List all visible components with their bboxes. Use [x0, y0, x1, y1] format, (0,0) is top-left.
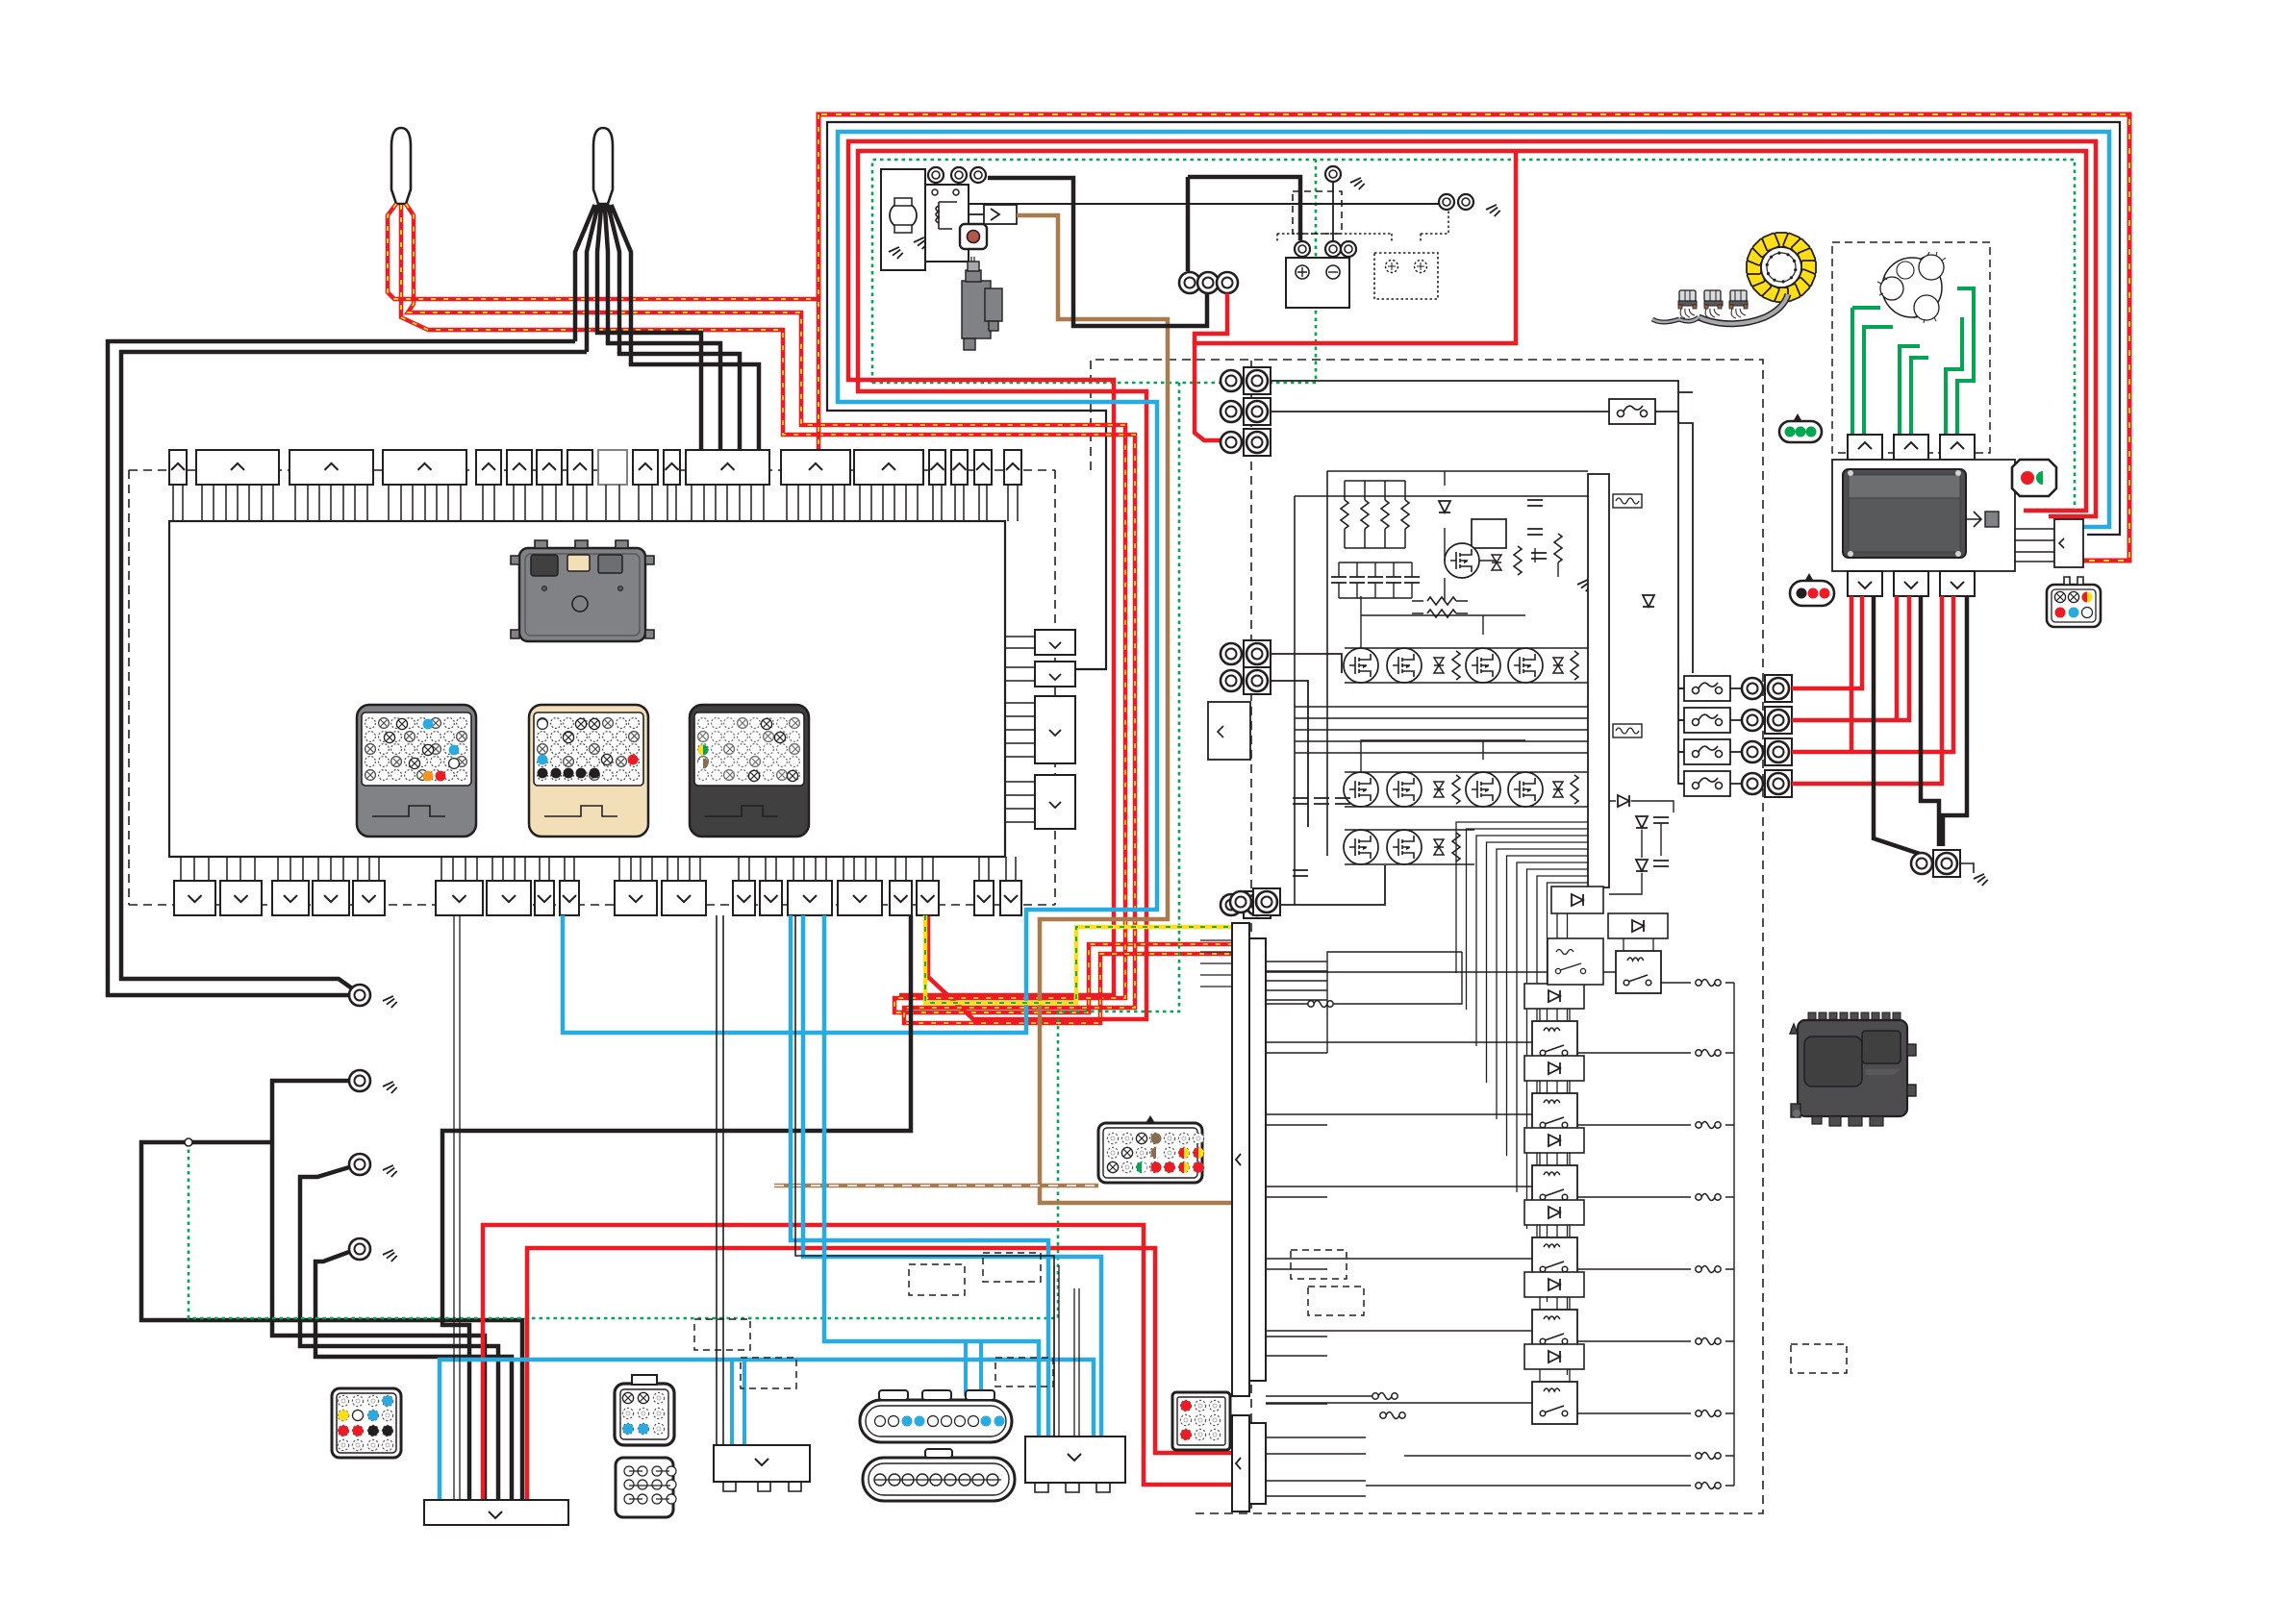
- ring pair fuse 2: [1742, 675, 1792, 702]
- wire black G3 route: [300, 1167, 498, 1500]
- capacitor C1: [1527, 500, 1543, 506]
- wire brown main relay: [1017, 215, 1232, 1203]
- wire rectifier red 2: [1792, 596, 1909, 720]
- wire rectifier red stub A: [1895, 596, 1900, 720]
- ECM bottom connector 9: [560, 881, 579, 915]
- fuse bank F4: [1684, 739, 1730, 764]
- ECM bottom connector 2: [220, 881, 262, 915]
- ECM right connector 4: [1035, 775, 1075, 829]
- diode D4: [1636, 816, 1648, 828]
- zener row2 A: [1434, 782, 1444, 797]
- ground G1: [383, 996, 398, 1011]
- connector 8-pin C: [616, 1458, 676, 1517]
- net harness green dotted run: [872, 160, 2075, 510]
- resistor R1: [1514, 546, 1522, 575]
- ECM top connector 11: [686, 450, 769, 485]
- engine control module image: [1790, 1012, 1916, 1126]
- mosfet row1 Q2: [1387, 648, 1422, 683]
- harness clamp dashed box 4: [983, 1253, 1041, 1282]
- ECM dashed enclosure border: [129, 470, 1055, 905]
- wire black bundle lower: [141, 1142, 522, 1500]
- rectifier lower connector 1: [1848, 571, 1882, 596]
- wire fuse F1 link: [1586, 392, 1693, 673]
- ECM right connector 3: [1035, 696, 1075, 763]
- relay K7 diode: [1524, 1344, 1584, 1369]
- wire fuse feeds vertical: [1678, 392, 1684, 784]
- starter relay coil: [936, 202, 957, 229]
- fuse F1: [1609, 399, 1655, 424]
- zener row1 A: [1434, 658, 1444, 673]
- capacitor C3: [1531, 553, 1547, 559]
- ECM top connector 3: [290, 450, 373, 485]
- connector bar C: [1025, 1437, 1125, 1492]
- ring terminal G3: [349, 1154, 370, 1175]
- main fuse: [984, 205, 1017, 224]
- resistor pair horizontal: [1412, 597, 1468, 617]
- wire black relay to ground: [969, 203, 1439, 205]
- ring terminal E1: [1439, 194, 1454, 210]
- wire black battery top: [988, 178, 1207, 326]
- harness clamp dashed box 2: [694, 1319, 750, 1350]
- wire rectifier red 1: [1792, 596, 1862, 688]
- ECM bottom connector 3: [272, 881, 309, 915]
- driver aux switch box: [1548, 938, 1603, 985]
- fuse bank F3: [1684, 708, 1730, 733]
- ground battery: [1350, 178, 1366, 192]
- connector oval 10-pin: [863, 1449, 1015, 1501]
- harness clamp dashed box 7: [1308, 1287, 1364, 1315]
- ECM bottom connector 11: [662, 881, 706, 915]
- ECM right connector 2: [1035, 662, 1075, 687]
- ground starter B: [914, 237, 929, 252]
- mosfet Q1: [1445, 543, 1479, 578]
- ECM bottom connector 10: [615, 881, 657, 915]
- ring terminal E2: [1458, 194, 1473, 210]
- ground G2: [383, 1082, 398, 1096]
- mosfet row1 Q4: [1508, 648, 1543, 683]
- wire blue bar B drops: [732, 1360, 744, 1445]
- inductor L2: [1613, 724, 1642, 737]
- mosfet row1 Q1: [1344, 648, 1378, 683]
- inductor L1: [1613, 494, 1642, 508]
- wire trim link lines: [2015, 529, 2054, 562]
- ground G3: [383, 1165, 398, 1180]
- ECM bottom connector 15: [838, 881, 882, 915]
- relay K3: [1532, 1093, 1577, 1136]
- wire green pickup leads: [1852, 288, 1974, 435]
- ECM top connector 17: [1004, 450, 1021, 485]
- wire bus row 4: [1271, 654, 1342, 673]
- ECM top pins: [173, 485, 1018, 521]
- wire blue lower B: [824, 915, 1039, 1437]
- wire relay K7 diode links: [1540, 1369, 1570, 1382]
- wire yellow/green sensor: [925, 915, 1231, 1003]
- driver horizontal bus lines: [1295, 707, 1588, 753]
- ECM top connector 2: [196, 450, 279, 485]
- regulator IC block: [1472, 519, 1506, 548]
- wire relay K2 diode links: [1540, 1009, 1570, 1021]
- zener row1 B: [1553, 658, 1563, 673]
- wire ignition red/yellow 2: [406, 204, 1231, 1012]
- ECM bottom connector 12: [733, 881, 755, 915]
- ring terminal battery ground: [1325, 166, 1341, 182]
- wire blue main run: [563, 132, 2109, 1033]
- ring pair fuse 4: [1742, 738, 1792, 765]
- secondary harness strip: [1232, 1415, 1266, 1512]
- ground relay: [962, 233, 977, 247]
- capacitor C2: [1527, 529, 1543, 535]
- wire spark plug 2 lead steps: [597, 331, 759, 450]
- relay K4: [1532, 1165, 1577, 1208]
- zener row3: [1434, 839, 1444, 855]
- ground starter A: [889, 247, 904, 262]
- wire brown dash-dot segment: [774, 1184, 1098, 1188]
- wire rectifier red 3: [1792, 596, 1851, 752]
- ring pair terminal 5: [1221, 667, 1271, 694]
- connector bar B: [714, 1445, 810, 1491]
- wire green dotted lower run: [189, 383, 1179, 1318]
- wire driver frame: [1295, 471, 1588, 905]
- capacitor C5: [1653, 861, 1669, 866]
- ECM bottom connector 7: [487, 881, 531, 915]
- ring pair terminal 4: [1221, 640, 1271, 667]
- wire dotted isolator links: [1277, 210, 1448, 242]
- capacitor C4: [1653, 817, 1669, 823]
- subcircuit green dotted border: [872, 160, 1316, 383]
- ring terminal G1: [349, 985, 370, 1006]
- ECM bottom connector 16: [890, 881, 912, 915]
- wire red top run A: [848, 141, 2096, 995]
- wire fuse link: [969, 213, 984, 215]
- resistor row1 B: [1571, 651, 1578, 680]
- wire ignition red/yellow 1: [388, 204, 818, 299]
- ECM bottom connector 17: [917, 881, 939, 915]
- connector bar A: [424, 1500, 568, 1525]
- ECM bottom connector 5: [353, 881, 385, 915]
- relay K1: [1616, 951, 1661, 993]
- relay K2: [1532, 1021, 1577, 1063]
- inline coil A: [1308, 1001, 1333, 1008]
- ECM top connector 7: [537, 450, 562, 485]
- wire blue sensor 2: [791, 915, 1048, 1437]
- wire relay K4 diode links: [1540, 1153, 1570, 1165]
- stator connector 3: [1940, 435, 1975, 460]
- relay K3 diode: [1524, 1056, 1584, 1081]
- starter motor block: [881, 169, 925, 270]
- wire rectifier black 1: [1874, 596, 1920, 854]
- connector 3-pin power: [1790, 573, 1834, 606]
- ground E: [1486, 205, 1501, 219]
- relay K5: [1532, 1237, 1577, 1280]
- wire black G4 route: [315, 1252, 512, 1500]
- wire black battery minus: [1332, 183, 1334, 242]
- wire battery red branch: [1195, 293, 1227, 343]
- driver bus bar: [1588, 474, 1609, 887]
- wire blue lower A: [803, 915, 1101, 1437]
- relay K4 diode: [1524, 1128, 1584, 1153]
- ring pair terminal 2: [1221, 398, 1271, 425]
- ring terminal B1: [1179, 272, 1200, 293]
- harness clamp dashed box 5: [995, 1358, 1053, 1387]
- ECM top connector 8: [567, 450, 592, 485]
- mosfet row2 Q2: [1387, 772, 1422, 807]
- stator coil (lighting coil): [1747, 233, 1816, 302]
- driver aux diode box: [1551, 887, 1603, 913]
- ECM top connector 12: [781, 450, 850, 485]
- resistor R2: [1554, 534, 1562, 562]
- mosfet row3 Q1: [1344, 830, 1378, 864]
- junction dot green/black: [185, 1138, 192, 1146]
- starter relay block: [925, 185, 969, 262]
- ring terminal G4: [349, 1238, 370, 1260]
- mosfet row2 Q1: [1344, 772, 1378, 807]
- wire fuse 5 feed: [1678, 783, 1742, 785]
- starter motor assembly image: [962, 257, 1002, 350]
- connector 3-pin green: [1779, 413, 1822, 442]
- stator connector 1: [1848, 435, 1882, 460]
- wire blue lower C: [440, 1360, 1094, 1500]
- wire black G2 route: [272, 1081, 485, 1500]
- ground rectifier: [1974, 874, 1989, 888]
- ECM top connector shaded: [598, 450, 627, 485]
- driver internal links: [1445, 471, 1558, 601]
- ring pair terminal 1: [1221, 367, 1271, 394]
- resistor bank: [1341, 481, 1409, 548]
- wire relay K5 diode links: [1540, 1225, 1570, 1237]
- diode cluster links: [1609, 801, 1674, 894]
- ECM top connector 5: [476, 450, 501, 485]
- ring terminal battery+: [1295, 241, 1310, 257]
- trigger rotor: [1877, 252, 1946, 323]
- wire black sensor drop: [442, 915, 911, 1500]
- ring pair terminal 3: [1221, 429, 1271, 456]
- resistor row1 A: [1452, 651, 1460, 680]
- wire bus row 5: [1271, 681, 1308, 827]
- relay K1 diode: [1608, 913, 1668, 938]
- fuse holder dashed box: [1293, 191, 1342, 234]
- wire battery feed red up: [1195, 149, 1516, 440]
- ground driver: [1577, 580, 1593, 594]
- strip output stubs: [1266, 962, 1366, 1496]
- ECM connector face A (gray): [357, 705, 476, 837]
- wire relay K1 diode links: [1624, 938, 1653, 951]
- ring terminal battery-2: [1341, 241, 1356, 257]
- wire rectifier black 3: [1943, 596, 1967, 846]
- inline coil K4: [1696, 1194, 1721, 1201]
- ring terminal RG1: [1911, 853, 1932, 874]
- ignition coil assembly: [1652, 290, 1788, 324]
- ring terminal S2: [951, 167, 967, 183]
- spark plug cap 2: [593, 128, 613, 204]
- connector oval 12-pin: [860, 1390, 1012, 1442]
- wire relay K6 diode links: [1540, 1297, 1570, 1310]
- wire fuse 2 feed: [1678, 687, 1742, 689]
- ECM bottom connector 8: [535, 881, 554, 915]
- wire black top run: [827, 122, 2120, 669]
- ring pair harness 2: [1253, 888, 1280, 915]
- ECM top connector 1: [169, 450, 187, 485]
- driver input box: [1208, 702, 1250, 760]
- inline coil K2: [1696, 1050, 1721, 1057]
- relay input rows: [1266, 972, 1616, 1403]
- starter motor symbol: [890, 198, 917, 233]
- wire fuse 4 feed: [1678, 751, 1742, 753]
- strip left stubs: [1200, 940, 1232, 987]
- resistor row3: [1452, 833, 1460, 862]
- relay K2 diode: [1524, 984, 1584, 1009]
- wire black battery upper: [1188, 177, 1300, 271]
- main harness strip: [1232, 923, 1266, 1396]
- zener row2 B: [1553, 782, 1563, 797]
- ECM main unit box: [169, 521, 1005, 857]
- ring pair terminal 6: [1221, 891, 1271, 918]
- wire rectifier black 2: [1921, 596, 1939, 846]
- driver output wire fan: [1456, 822, 1588, 1375]
- ring terminal S1: [928, 167, 944, 183]
- harness clamp dashed box 1: [909, 1264, 965, 1295]
- wire bus row 1: [1271, 381, 1678, 392]
- battery isolator dotted box: [1374, 253, 1438, 299]
- wire black pair left A: [108, 341, 575, 995]
- ECM bottom pins: [181, 857, 1016, 881]
- ring pair harness: [1230, 891, 1251, 912]
- wire ground link: [1960, 863, 1974, 873]
- inline coil L8: [1696, 1453, 1721, 1460]
- inline coil K3: [1696, 1122, 1721, 1129]
- ECM connector face C (black): [690, 705, 809, 837]
- harness clamp dashed box 6: [1291, 1250, 1347, 1279]
- ECM bottom connector 1: [174, 881, 215, 915]
- ring terminal B3: [1217, 272, 1238, 293]
- diode D2: [1643, 595, 1654, 607]
- resistor row2 A: [1452, 775, 1460, 804]
- wire inline coil links: [1266, 952, 1462, 1396]
- wire relay K3 diode links: [1540, 1081, 1570, 1093]
- diode D3: [1618, 795, 1629, 807]
- diagnostic connector: [960, 224, 987, 249]
- inline coil K1: [1696, 980, 1721, 987]
- relay K5 diode: [1524, 1200, 1584, 1225]
- ECM bottom connector 13: [760, 881, 782, 915]
- wire gray pin line 2: [1054, 1265, 1079, 1436]
- driver-unit dashed enclosure border: [1091, 360, 1763, 1513]
- pickup coil dashed box: [1832, 242, 1990, 453]
- wire bus row 2: [1271, 411, 1586, 412]
- inline coil B: [1372, 1393, 1397, 1400]
- wire red main feed 1: [483, 1225, 1232, 1500]
- rectifier lower connector 2: [1894, 571, 1928, 596]
- ECM bottom connector 6: [436, 881, 483, 915]
- wire rectifier red stub B: [1851, 596, 1953, 752]
- inline coil K5: [1696, 1266, 1721, 1273]
- ECM bottom connector 4: [313, 881, 349, 915]
- mosfet row links: [1345, 596, 1588, 864]
- wire black lower thin: [717, 915, 723, 1445]
- connector 18-pin multi: [1098, 1115, 1204, 1183]
- ECM right connector 1: [1035, 630, 1075, 655]
- inline coil K6: [1696, 1338, 1721, 1345]
- wire black pair left B: [121, 352, 587, 988]
- wire red/yellow main top: [818, 114, 2129, 561]
- relay bus right: [1366, 983, 1734, 1486]
- connector 9-pin red: [1172, 1392, 1230, 1450]
- ECM bottom connector 19: [1000, 881, 1021, 915]
- ECM top connector 4: [383, 450, 466, 485]
- ECM bottom connector 18: [974, 881, 994, 915]
- ECM top connector 9: [633, 450, 658, 485]
- ring terminal B2: [1197, 272, 1219, 293]
- ECM connector face B (cream): [529, 705, 648, 837]
- wire blue oval drops: [966, 1341, 981, 1396]
- relay K7: [1532, 1382, 1577, 1424]
- harness clamp dashed box 8: [1791, 1344, 1847, 1373]
- relay K6 diode: [1524, 1272, 1584, 1297]
- battery: [1286, 258, 1349, 308]
- stator connector 2: [1894, 435, 1928, 460]
- inline coil K7: [1696, 1411, 1721, 1417]
- capacitor column: [1293, 798, 1350, 876]
- relay K6: [1532, 1310, 1577, 1352]
- resistor row2 B: [1571, 775, 1578, 804]
- ring pair fuse 5: [1742, 770, 1792, 797]
- ECM top connector 15: [951, 450, 968, 485]
- wire bus row 6: [1271, 865, 1385, 905]
- wire gray pin line 1: [454, 915, 460, 1500]
- ring terminal RG2: [1933, 850, 1960, 877]
- mosfet row2 Q3: [1466, 772, 1500, 807]
- connector 12-pin square: [332, 1388, 401, 1458]
- ECM top connector 6: [507, 450, 532, 485]
- mosfet row1 Q3: [1466, 648, 1500, 683]
- wire red top run B: [858, 151, 2086, 1019]
- mosfet row2 Q4: [1508, 772, 1543, 807]
- strip stub block: [1327, 952, 1462, 1053]
- relay module image: [511, 540, 654, 641]
- mosfet row3 Q2: [1387, 830, 1422, 864]
- fuse bank F5: [1684, 771, 1730, 796]
- ring terminal S3: [970, 167, 986, 183]
- ECM top connector 13: [854, 450, 923, 485]
- ring terminal battery-: [1325, 241, 1341, 257]
- rectifier regulator box: [1832, 460, 2015, 571]
- connector 2-pin sensor: [2012, 460, 2056, 496]
- ring pair fuse 3: [1742, 707, 1792, 734]
- wire spark plug 2 leads: [575, 205, 631, 364]
- zener Z1: [1492, 555, 1501, 570]
- wire red main feed 2: [527, 1248, 1232, 1500]
- diode D1: [1439, 501, 1450, 512]
- wire rectifier red 4: [1792, 596, 1942, 784]
- relay output rows: [1577, 983, 1734, 1413]
- capacitor bank: [1331, 562, 1420, 598]
- wire red/yellow vertical to ECM: [817, 114, 821, 450]
- wire ignition red/yellow 3: [401, 205, 1231, 1023]
- fuse bank F2: [1684, 676, 1730, 701]
- ECM top connector 14: [929, 450, 945, 485]
- harness clamp dashed box 3: [741, 1358, 796, 1388]
- spark plug cap 1: [391, 128, 411, 204]
- ECM top connector 16: [974, 450, 992, 485]
- connector 6-pin trim: [2047, 577, 2101, 627]
- ECM right pins: [1005, 637, 1035, 822]
- rectifier lower connector 3: [1940, 571, 1975, 596]
- ECM bottom connector 14: [788, 881, 832, 915]
- wire black thin mid: [795, 915, 1054, 1437]
- ECM top connector 10: [664, 450, 680, 485]
- connector trim sender: [2054, 519, 2083, 567]
- diode D5: [1636, 860, 1648, 871]
- ground G4: [383, 1250, 398, 1264]
